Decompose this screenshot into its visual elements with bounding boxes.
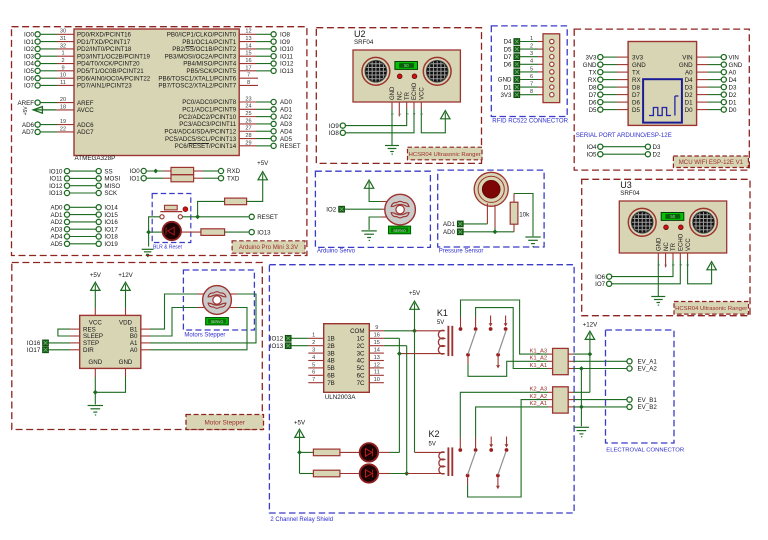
terminal IO4 (587, 144, 603, 151)
svg-text:BLR & Reset: BLR & Reset (153, 244, 183, 250)
svg-text:D0: D0 (685, 107, 693, 114)
terminal IO19 (96, 241, 118, 248)
wire D4 right (697, 79, 722, 81)
port pin5 (514, 69, 520, 75)
svg-text:PC0/ADC0/PCINT8: PC0/ADC0/PCINT8 (182, 99, 237, 106)
svg-text:IO12: IO12 (49, 183, 63, 190)
svg-text:ATMEGA328P: ATMEGA328P (75, 155, 116, 162)
wire VCC to power (421, 109, 445, 133)
wire to connector pin 8 (520, 94, 543, 96)
wire U1 to IO8 (239, 33, 271, 35)
terminal IO3 (24, 53, 40, 60)
svg-text:AD1: AD1 (443, 221, 456, 228)
svg-text:IO7: IO7 (595, 281, 606, 288)
wire 3V3 left (603, 56, 628, 58)
pin stub GND (391, 102, 393, 109)
port D4 (504, 39, 520, 46)
svg-text:8: 8 (530, 89, 533, 95)
svg-text:AD4: AD4 (280, 128, 293, 135)
svg-text:IO9: IO9 (280, 39, 291, 46)
terminal IO7 (24, 83, 40, 90)
pin stub 7B (308, 382, 323, 384)
svg-text:VCC: VCC (89, 319, 103, 326)
terminal IO16 (96, 219, 118, 226)
svg-text:GND: GND (679, 62, 693, 69)
pin stub TR (406, 102, 408, 109)
svg-text:6: 6 (312, 370, 315, 376)
svg-text:D5: D5 (589, 107, 597, 114)
svg-text:IO12: IO12 (270, 336, 284, 343)
svg-text:D7: D7 (589, 92, 597, 99)
svg-text:50: 50 (404, 63, 409, 68)
svg-text:EV_A2: EV_A2 (638, 366, 658, 373)
svg-text:D4: D4 (729, 77, 737, 84)
pin stub NC (665, 253, 667, 267)
svg-text:K2_A3: K2_A3 (530, 387, 548, 393)
svg-text:3B: 3B (327, 350, 335, 357)
wire +5V to VCC (94, 290, 96, 316)
terminal RESET (271, 143, 301, 150)
wire to connector pin 1 (520, 41, 543, 43)
svg-text:IO18: IO18 (104, 234, 118, 241)
svg-text:K1_A2: K1_A2 (530, 356, 548, 362)
svg-text:IO5: IO5 (587, 151, 598, 158)
wire D6 left (603, 101, 628, 103)
wire U1 to AD4 (239, 130, 271, 132)
svg-text:PB3/MOSI/OC2A/PCINT3: PB3/MOSI/OC2A/PCINT3 (165, 53, 237, 60)
wire IO4-D3 (603, 146, 645, 148)
svg-text:IO11: IO11 (280, 53, 294, 60)
svg-text:SERVO: SERVO (211, 320, 224, 324)
port IO13 (270, 343, 291, 350)
wire +5V to R2 (300, 451, 314, 453)
svg-text:EV_B2: EV_B2 (638, 404, 658, 411)
svg-text:30: 30 (60, 29, 66, 35)
wire to connector pin 2 (520, 48, 543, 50)
svg-text:AD0: AD0 (50, 205, 63, 212)
svg-text:VCC: VCC (420, 87, 426, 100)
terminal AD4 (271, 128, 293, 135)
wire to connector pin 6 (520, 79, 543, 81)
power (583, 321, 598, 339)
wire K2 coil bottom (407, 473, 445, 475)
terminal GND left (583, 62, 603, 69)
svg-text:PC6/RESET/PCINT14: PC6/RESET/PCINT14 (175, 143, 237, 150)
wire IO12 to 1B (291, 337, 308, 339)
pin stub NC (398, 102, 400, 116)
LED indicator U2 red1 (397, 74, 402, 79)
wire U1 to IO10 (239, 48, 271, 50)
svg-text:1C: 1C (357, 336, 365, 343)
wire K1_A3 to +12V rail (568, 353, 590, 355)
svg-text:1B: 1B (327, 336, 335, 343)
wire D2 right (697, 94, 722, 96)
svg-text:AREF: AREF (17, 100, 34, 107)
wire IO1 to U1 (40, 41, 74, 43)
svg-text:PD5/T1/OC0B/PCINT21: PD5/T1/OC0B/PCINT21 (77, 68, 144, 75)
svg-text:PB1/OC1A/PCINT1: PB1/OC1A/PCINT1 (182, 39, 237, 46)
terminal IO15 (96, 212, 118, 219)
wire AD0-IO14 (70, 206, 97, 208)
wire U1 to AD2 (239, 116, 271, 118)
wire GND left (603, 64, 628, 66)
pin servo gnd (381, 216, 387, 218)
svg-text:IO9: IO9 (329, 123, 340, 130)
svg-text:RESET: RESET (257, 214, 278, 221)
svg-text:2: 2 (312, 340, 315, 346)
svg-text:GND: GND (88, 359, 102, 366)
svg-text:RESET: RESET (280, 143, 301, 150)
label box Arduino Pro Mini 3.3V (232, 241, 305, 253)
wire AD3-IO17 (70, 228, 97, 230)
svg-text:2C: 2C (357, 343, 365, 350)
designator K1 (437, 308, 448, 326)
connector contact 1 (550, 39, 554, 43)
svg-text:IO15: IO15 (104, 212, 118, 219)
pin stub 2C (369, 345, 384, 347)
power (409, 290, 421, 309)
svg-text:5C: 5C (357, 365, 365, 372)
svg-text:PB7/TOSC2/XTAL2/PCINT7: PB7/TOSC2/XTAL2/PCINT7 (158, 83, 236, 90)
pin stub 7C (369, 382, 384, 384)
wire K1 coil bottom to 1C net (399, 353, 444, 355)
svg-text:24: 24 (245, 104, 251, 110)
wire A1 to motor (141, 294, 256, 343)
terminal IO6 (595, 274, 612, 281)
wire pullup to +5V (247, 180, 263, 202)
wire IO1 to resistor (146, 177, 171, 179)
wire D0 right (697, 109, 722, 111)
wire COM to +5V (384, 330, 415, 332)
wire AD0 net (463, 231, 514, 233)
wire +5V to R3 (300, 473, 314, 475)
port AD0 (443, 229, 463, 236)
LED D2 (360, 443, 378, 461)
svg-text:7C: 7C (357, 380, 365, 387)
wire D5 left (603, 109, 628, 111)
wire AREF to U1 (40, 102, 74, 104)
terminal AD2 (271, 114, 293, 121)
svg-text:4: 4 (312, 355, 315, 361)
wire IO3 to U1 (40, 55, 74, 57)
svg-text:K2: K2 (429, 429, 440, 439)
svg-text:IO16: IO16 (104, 219, 118, 226)
terminal D1 right (721, 99, 737, 106)
wire +5V to servo (369, 188, 381, 202)
IC stepper driver body (80, 315, 141, 368)
wire U1 to AD1 (239, 108, 271, 110)
svg-text:TR: TR (671, 242, 677, 251)
connector K1 output block (553, 348, 569, 374)
LED indicator U3 red2 (679, 225, 684, 230)
transducer U2-1 (362, 57, 390, 85)
svg-text:D0: D0 (729, 107, 737, 114)
wire D1 right (697, 101, 722, 103)
svg-text:PD3/INT1/OC2B/PCINT19: PD3/INT1/OC2B/PCINT19 (77, 53, 150, 60)
svg-text:29: 29 (245, 140, 251, 146)
terminal EV_B2 (627, 404, 657, 411)
svg-text:7: 7 (530, 82, 533, 88)
svg-text:3: 3 (530, 51, 533, 57)
transducer U3-2 (690, 208, 718, 236)
terminal TX left (589, 69, 603, 76)
wire K1 pole to K1_A2 (468, 357, 553, 377)
svg-text:IO3: IO3 (24, 53, 35, 60)
pin stub 3B (308, 352, 323, 354)
terminal IO13 led (249, 229, 271, 236)
wire resistor to ground (514, 194, 533, 237)
terminal IO0 (24, 32, 40, 39)
svg-text:+5V: +5V (294, 419, 306, 426)
wire +12V to VDD (125, 290, 127, 316)
wire R2 to LED2 (340, 451, 360, 453)
pin stub 1C (369, 337, 384, 339)
section box Pressure Sensor (438, 170, 544, 247)
port D1 (504, 84, 520, 91)
svg-text:AD3: AD3 (50, 226, 63, 233)
terminal IO8 (271, 32, 291, 39)
junction (146, 230, 151, 235)
label box HCSR04 Ultrasonic Ranger (674, 302, 749, 315)
svg-text:IO19: IO19 (104, 241, 118, 248)
svg-text:5B: 5B (327, 365, 335, 372)
svg-text:GND: GND (729, 62, 743, 69)
svg-text:D1: D1 (504, 84, 512, 91)
terminal IO7 (595, 281, 612, 288)
pin K2 pole B stub (497, 477, 499, 487)
junction (493, 229, 498, 234)
junction (93, 390, 98, 395)
svg-text:PB5/SCK/PCINT5: PB5/SCK/PCINT5 (186, 68, 236, 75)
svg-text:IO5: IO5 (24, 68, 35, 75)
wire VIN right (697, 56, 722, 58)
svg-text:D6: D6 (632, 99, 640, 106)
svg-text:D8: D8 (632, 84, 640, 91)
svg-text:RFID RC522 CONNECTOR: RFID RC522 CONNECTOR (492, 117, 568, 124)
LED indicator U3 red1 (664, 225, 669, 230)
svg-text:IO0: IO0 (24, 32, 35, 39)
ground stepper (88, 406, 103, 415)
svg-text:5: 5 (530, 66, 533, 72)
terminal MISO (96, 183, 120, 190)
svg-text:AD7: AD7 (22, 129, 35, 136)
svg-text:RX: RX (588, 77, 597, 84)
wire RES-SLEEP tie (58, 329, 80, 336)
section box 2 Channel Relay Shield (269, 265, 574, 513)
svg-text:U2: U2 (354, 29, 366, 39)
svg-text:50: 50 (670, 214, 675, 219)
section box U2 (316, 28, 481, 164)
svg-text:IO1: IO1 (24, 39, 35, 46)
port GND (498, 77, 520, 84)
pin resistor top (513, 194, 515, 203)
svg-text:PD6/AIN0/OC0A/PCINT22: PD6/AIN0/OC0A/PCINT22 (77, 75, 151, 82)
terminal AD3 (271, 121, 293, 128)
wire +5V down to COM and K2 (414, 309, 416, 453)
pin stub 5B (308, 367, 323, 369)
junction (195, 214, 200, 219)
servo motor M1 (385, 194, 416, 225)
svg-text:14: 14 (374, 348, 380, 354)
wire IO6 to U1 (40, 77, 74, 79)
wire GND right (697, 64, 722, 66)
svg-text:K1_A1: K1_A1 (530, 363, 548, 369)
wire U1 to AD5 (239, 138, 271, 140)
svg-text:6B: 6B (327, 373, 335, 380)
transducer U3-1 (628, 208, 656, 236)
svg-text:15: 15 (374, 340, 380, 346)
svg-text:PB2/SS/OC1B/PCINT2: PB2/SS/OC1B/PCINT2 (172, 46, 237, 53)
svg-text:4: 4 (530, 59, 533, 65)
label box Motor Stepper (186, 415, 264, 430)
svg-text:A0: A0 (685, 69, 693, 76)
svg-text:HCSR04 Ultrasonic Ranger: HCSR04 Ultrasonic Ranger (675, 306, 747, 312)
terminal D0 right (721, 107, 737, 114)
wire resistor to RXD (194, 170, 219, 172)
wire IO13-SCK (70, 192, 97, 194)
wire button right to RESET (182, 216, 248, 218)
wire pullup (198, 201, 225, 216)
svg-text:TX: TX (632, 69, 640, 76)
svg-text:ECHO: ECHO (412, 82, 418, 100)
svg-text:U3: U3 (620, 180, 632, 190)
wire LED junction to ground (148, 232, 150, 246)
wire 1C net vertical (384, 338, 400, 452)
svg-text:MOSI: MOSI (104, 176, 120, 183)
wire LED2 to 1C net (378, 451, 399, 453)
connector contact 5 (550, 70, 554, 74)
svg-text:12: 12 (245, 29, 251, 35)
relay K1 coil (438, 326, 452, 356)
svg-text:NC: NC (664, 242, 670, 251)
wire U1 to IO12 (239, 63, 271, 65)
terminal VIN right (721, 54, 739, 61)
port IO12 (270, 335, 291, 342)
wire U1 to AD0 (239, 101, 271, 103)
section box MCU WIFI ESP-12E (574, 29, 749, 170)
pin stub 1B (308, 337, 323, 339)
terminal IO5 (587, 151, 603, 158)
terminal IO17 (96, 226, 118, 233)
terminal IO11 (271, 53, 294, 60)
svg-text:IO14: IO14 (104, 205, 118, 212)
resistor RXD series (171, 167, 194, 174)
pin stub PB7/TOSC2/XTAL2/PCINT7 (239, 84, 258, 86)
connector K2 output block (553, 387, 569, 413)
svg-text:26: 26 (245, 118, 251, 124)
IC U1 ATMEGA328P body (74, 29, 239, 156)
terminal AREF (17, 100, 40, 107)
section box Motors Stepper (183, 270, 254, 330)
terminal AD0 (50, 205, 69, 212)
svg-text:3V3: 3V3 (632, 54, 644, 61)
pin stub PB6/TOSC1/XTAL1/PCINT6 (239, 77, 258, 79)
svg-text:D2: D2 (729, 92, 737, 99)
stepper motor M2 (203, 286, 232, 315)
terminal EV_A2 (627, 366, 657, 373)
wire +12V rail vertical (589, 339, 591, 393)
svg-text:9: 9 (375, 325, 378, 331)
terminal AD7 (22, 129, 40, 136)
svg-text:A0: A0 (729, 69, 737, 76)
terminal AD1 (50, 212, 69, 219)
section box Motor Stepper (12, 263, 262, 430)
terminal IO5 (24, 68, 40, 75)
ground servo (361, 231, 376, 240)
svg-text:13: 13 (245, 36, 251, 42)
wire to connector pin 4 (520, 63, 543, 65)
svg-text:SCK: SCK (104, 190, 118, 197)
wire U1 to IO13 (239, 70, 271, 72)
terminal D7 left (589, 92, 603, 99)
svg-text:SS: SS (104, 168, 112, 175)
terminal AD6 (22, 122, 40, 129)
wire IO11-MOSI (70, 177, 97, 179)
wire ECHO to IO7 (612, 260, 681, 284)
svg-text:RX: RX (632, 77, 641, 84)
svg-text:12: 12 (374, 362, 380, 368)
pin stub 3C (369, 352, 384, 354)
svg-text:2 Channel Relay Shield: 2 Channel Relay Shield (270, 517, 333, 523)
terminal RESET (249, 214, 278, 221)
pin stub 4C (369, 360, 384, 362)
svg-text:D7: D7 (632, 92, 640, 99)
svg-text:7B: 7B (327, 380, 335, 387)
terminal IO18 (96, 234, 118, 241)
svg-text:AD1: AD1 (280, 107, 293, 114)
svg-text:5V: 5V (429, 441, 436, 447)
power (118, 272, 133, 291)
svg-text:AD0: AD0 (443, 229, 456, 236)
wire K2 coil top (415, 451, 445, 453)
wire IO17 to DIR (48, 349, 79, 351)
wire AD2-IO16 (70, 221, 97, 223)
wire K2 NC to K2_A3 (460, 392, 552, 448)
svg-text:IO12: IO12 (280, 61, 294, 68)
section box Arduino Servo (315, 171, 430, 247)
svg-text:+5V: +5V (90, 272, 102, 279)
wire GND pins to ground (95, 368, 125, 404)
terminal A0 right (721, 69, 736, 76)
svg-text:23: 23 (245, 96, 251, 102)
svg-text:6C: 6C (357, 373, 365, 380)
svg-text:Motors Stepper: Motors Stepper (184, 332, 225, 338)
wire LED3 to 2C net (378, 473, 407, 475)
wire B1 to motor (141, 294, 204, 329)
terminal IO6 (24, 75, 40, 82)
terminal TXD (218, 175, 240, 182)
svg-text:ECHO: ECHO (679, 233, 685, 251)
wire VCC to power (688, 260, 712, 284)
svg-text:TX: TX (589, 69, 597, 76)
port IO17 (27, 347, 49, 354)
wire 2C net vertical (384, 346, 407, 474)
terminal IO9 (329, 123, 346, 130)
svg-text:PC2/ADC2/PCINT10: PC2/ADC2/PCINT10 (179, 114, 237, 121)
relay K1 contacts (459, 316, 508, 357)
svg-text:28: 28 (245, 133, 251, 139)
wire RX left (603, 79, 628, 81)
wire U1 to IO9 (239, 41, 271, 43)
power (90, 272, 102, 291)
wire U1 to AD3 (239, 123, 271, 125)
wire IO16 to STEP (48, 342, 79, 344)
terminal D3 (645, 144, 661, 151)
terminal AD1 (271, 107, 293, 114)
svg-text:K1: K1 (437, 308, 448, 318)
terminal AD3 (50, 226, 69, 233)
label box HCSR04 Ultrasonic Ranger (408, 147, 483, 160)
